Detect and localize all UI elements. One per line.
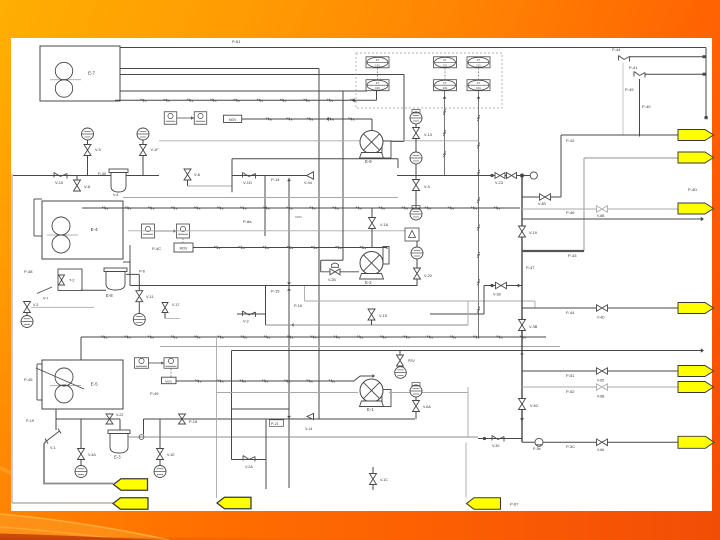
svg-text:P-44: P-44	[566, 310, 575, 315]
svg-text:V-4: V-4	[113, 193, 118, 197]
svg-text:V-2: V-2	[243, 320, 249, 324]
svg-text:P-49: P-49	[150, 391, 159, 396]
svg-text:xxxx: xxxx	[295, 215, 302, 219]
svg-text:V-6C: V-6C	[530, 404, 539, 408]
svg-text:V-15: V-15	[379, 314, 387, 318]
svg-text:MOV: MOV	[229, 118, 237, 122]
svg-text:P-15: P-15	[271, 289, 280, 294]
svg-text:V-1B: V-1B	[493, 293, 501, 297]
svg-text:V-4D: V-4D	[597, 316, 605, 320]
svg-text:P-30: P-30	[98, 172, 106, 176]
svg-text:E-5: E-5	[91, 382, 99, 387]
svg-text:101: 101	[476, 63, 481, 67]
svg-text:P-61: P-61	[232, 39, 241, 44]
svg-text:P-21: P-21	[271, 422, 279, 426]
svg-text:V-66: V-66	[597, 448, 604, 452]
svg-text:V-8: V-8	[84, 184, 91, 189]
svg-text:V-14: V-14	[305, 427, 312, 431]
svg-text:V-4: V-4	[424, 185, 430, 189]
svg-text:V-7: V-7	[43, 297, 48, 301]
svg-text:V-65: V-65	[597, 379, 604, 383]
svg-text:V-1D: V-1D	[243, 180, 252, 185]
svg-text:PSV: PSV	[408, 359, 416, 363]
svg-text:V-20: V-20	[424, 274, 432, 278]
svg-text:P-4D: P-4D	[688, 187, 697, 192]
svg-text:V-6B: V-6B	[597, 214, 605, 218]
svg-text:V-6: V-6	[194, 172, 201, 177]
svg-text:V-6B: V-6B	[597, 395, 605, 399]
svg-text:V-1C: V-1C	[380, 478, 388, 482]
svg-text:E-9: E-9	[365, 159, 372, 164]
svg-text:E-3: E-3	[114, 455, 121, 460]
svg-text:101: 101	[476, 86, 481, 90]
svg-text:V-1F: V-1F	[151, 148, 160, 152]
svg-text:FT: FT	[443, 58, 447, 62]
svg-text:P-8a: P-8a	[243, 219, 252, 224]
svg-text:V-22: V-22	[116, 413, 123, 417]
svg-text:P-5b: P-5b	[533, 447, 541, 451]
svg-text:P-67: P-67	[510, 502, 519, 507]
svg-text:P-16: P-16	[294, 304, 302, 308]
svg-text:V-13: V-13	[424, 133, 432, 137]
svg-text:P-46: P-46	[566, 210, 575, 215]
svg-text:101: 101	[375, 63, 380, 67]
svg-text:P-6: P-6	[139, 270, 145, 274]
svg-text:E-1: E-1	[367, 407, 374, 412]
svg-text:V-5: V-5	[95, 148, 101, 152]
svg-text:P-51: P-51	[566, 373, 575, 378]
svg-text:V-17: V-17	[172, 303, 179, 307]
svg-text:V-2A: V-2A	[245, 465, 253, 469]
svg-text:E-4: E-4	[91, 227, 99, 232]
svg-text:FT: FT	[443, 81, 447, 85]
svg-text:V-16: V-16	[380, 223, 388, 227]
svg-text:P-42: P-42	[566, 138, 575, 143]
svg-text:T-2: T-2	[69, 279, 75, 283]
svg-text:101: 101	[443, 63, 448, 67]
svg-text:P-14: P-14	[271, 177, 280, 182]
svg-text:P-49: P-49	[625, 87, 634, 92]
svg-text:FT: FT	[376, 81, 380, 85]
svg-text:P-19: P-19	[26, 419, 34, 423]
svg-text:FT: FT	[376, 58, 380, 62]
svg-text:V-2B: V-2B	[328, 278, 336, 282]
svg-text:P-47: P-47	[526, 265, 535, 270]
svg-text:V-23: V-23	[495, 181, 503, 185]
svg-text:E-8: E-8	[106, 293, 113, 298]
svg-text:P-43: P-43	[568, 253, 577, 258]
svg-text:FT: FT	[477, 58, 481, 62]
svg-text:P-41: P-41	[629, 65, 638, 70]
svg-text:V-4A: V-4A	[88, 453, 96, 457]
svg-text:P-18: P-18	[189, 420, 197, 424]
svg-text:V-30: V-30	[492, 444, 499, 448]
svg-text:MOV: MOV	[165, 379, 172, 383]
svg-text:V-4B: V-4B	[538, 202, 546, 206]
svg-text:FT: FT	[477, 81, 481, 85]
svg-text:P-48: P-48	[24, 269, 33, 274]
svg-text:MOV: MOV	[180, 247, 188, 251]
svg-text:101: 101	[443, 86, 448, 90]
svg-text:V-10: V-10	[55, 180, 64, 185]
svg-text:E-7: E-7	[88, 71, 96, 76]
svg-text:P-44: P-44	[612, 47, 621, 52]
svg-text:P-4C: P-4C	[152, 246, 161, 251]
svg-text:P-3C: P-3C	[566, 444, 575, 449]
svg-text:V-6A: V-6A	[423, 405, 431, 409]
svg-text:V-3: V-3	[33, 303, 38, 307]
svg-text:V-3B: V-3B	[529, 325, 538, 329]
svg-text:V-1E: V-1E	[167, 453, 175, 457]
svg-text:P-45: P-45	[24, 377, 33, 382]
svg-text:V-1: V-1	[50, 446, 56, 450]
svg-text:101: 101	[375, 86, 380, 90]
svg-text:P-40: P-40	[642, 104, 651, 109]
svg-text:V-19: V-19	[529, 231, 537, 235]
svg-text:V-44: V-44	[304, 181, 312, 185]
svg-text:P-52: P-52	[566, 389, 575, 394]
svg-text:V-11: V-11	[146, 295, 154, 299]
svg-text:E-2: E-2	[365, 280, 372, 285]
